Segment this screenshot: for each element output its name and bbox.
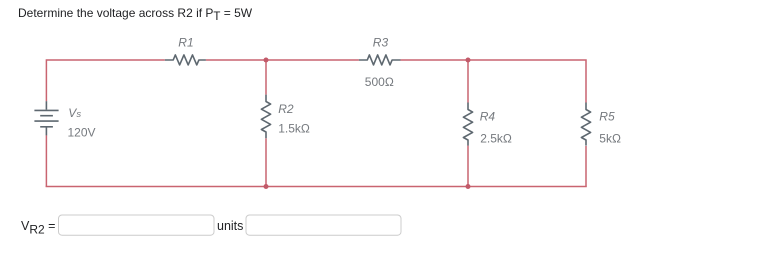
resistor R5	[581, 103, 590, 146]
wire left-lower (source to bottom rail)	[45, 135, 47, 187]
svg-text:VR2 =: VR2 =	[21, 219, 55, 236]
wire top-right (R3 to R5)	[401, 60, 587, 103]
svg-text:120V: 120V	[68, 126, 96, 140]
svg-text:units: units	[217, 219, 243, 233]
svg-text:R5: R5	[599, 110, 615, 124]
answer input box VR2	[59, 215, 215, 235]
units input box	[246, 215, 401, 235]
node junction bottom R4	[466, 184, 471, 189]
resistor R2	[261, 95, 270, 139]
wire top-middle (R1 to R3)	[206, 59, 359, 61]
svg-text:R4: R4	[480, 110, 496, 124]
svg-text:R3: R3	[373, 35, 389, 49]
svg-text:Determine the voltage across R: Determine the voltage across R2 if PT = …	[18, 6, 253, 23]
resistor R4	[463, 103, 472, 146]
svg-text:R2: R2	[278, 102, 294, 116]
wire R2 branch upper	[265, 60, 267, 95]
wire bottom rail	[46, 186, 587, 188]
wire R2 branch lower	[265, 138, 267, 186]
svg-text:5kΩ: 5kΩ	[599, 131, 621, 145]
resistor R3	[359, 55, 401, 65]
svg-text:Vs: Vs	[68, 106, 81, 120]
battery V1 (DC source)	[34, 101, 58, 135]
wire R4 branch lower	[467, 146, 469, 187]
svg-text:R1: R1	[178, 36, 193, 50]
resistor R1	[165, 55, 206, 65]
wire top-left (source to R1)	[46, 60, 164, 101]
svg-text:2.5kΩ: 2.5kΩ	[480, 131, 512, 145]
wire R4 branch upper	[467, 60, 469, 103]
node junction top R2	[264, 58, 269, 63]
svg-text:500Ω: 500Ω	[365, 75, 394, 89]
node junction top R4	[466, 58, 471, 63]
svg-text:1.5kΩ: 1.5kΩ	[278, 122, 310, 136]
wire R5 branch lower	[585, 146, 587, 187]
node junction bottom R2	[264, 184, 269, 189]
